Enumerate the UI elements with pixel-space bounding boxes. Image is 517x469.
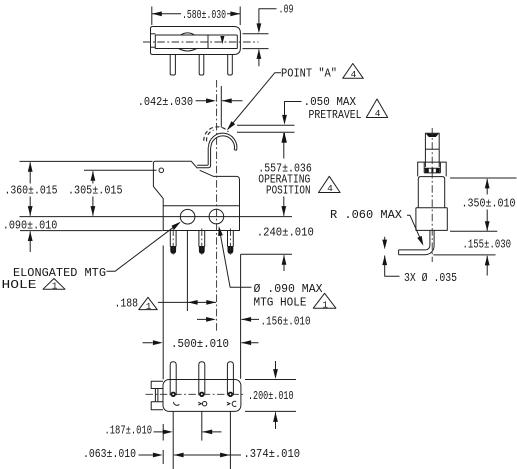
profile centerline [431, 128, 433, 262]
top view point A marker arrow [221, 36, 223, 39]
side view pivot hole [159, 168, 164, 173]
top view left notch lower [151, 46, 156, 48]
top view pin 3 [228, 55, 233, 76]
dim .050 pretravel extension lines [237, 125, 295, 132]
svg-text:.09: .09 [279, 2, 294, 16]
top view lever slot [155, 35, 237, 49]
elongated hole flag triangle 1 [43, 279, 65, 290]
svg-text:.155±.030: .155±.030 [463, 237, 512, 251]
dim .305 stem and arrows [92, 171, 94, 216]
svg-text:.063±.010: .063±.010 [83, 447, 136, 461]
bottom view terminal 2 hole [199, 392, 204, 397]
bottom view terminal 3 [227, 362, 233, 396]
side view pin 2 tip [199, 246, 205, 254]
dim .240 lower arrow [283, 255, 285, 271]
profile cap outline [418, 162, 447, 176]
top view pin 1 [170, 55, 175, 76]
side view pin 2 centerline [201, 229, 203, 257]
svg-text:.188: .188 [115, 296, 139, 310]
profile mid body [418, 177, 444, 208]
side view mounting hole 2 [209, 209, 224, 224]
svg-text:.042±.030: .042±.030 [138, 95, 193, 109]
svg-text:4: 4 [351, 69, 357, 80]
mtg hole leader [220, 230, 252, 287]
pivot extension line left [84, 169, 157, 171]
dim .360 stem and arrows [29, 162, 31, 215]
side view pin 3 outline [228, 231, 234, 247]
dim .374 line and arrows [174, 454, 241, 456]
dim .188 line and arrows [158, 301, 216, 303]
dim .200 stem and arrows [275, 361, 277, 370]
dim .580 line and arrows [152, 13, 240, 15]
dim .042 extension line [220, 86, 222, 128]
body right edge extension line [240, 254, 242, 378]
dim .09 extension lines [243, 34, 269, 49]
svg-text:PRETRAVEL: PRETRAVEL [309, 108, 362, 122]
mtg hole 1 extension line [186, 231, 188, 311]
elongated hole leader [107, 223, 180, 272]
dim .156 lines and arrows [197, 318, 259, 320]
point A leader [228, 73, 281, 130]
side view main vertical centerline [216, 80, 218, 332]
side view body seam [163, 205, 239, 207]
svg-text:1: 1 [52, 280, 58, 291]
svg-text:POINT "A": POINT "A" [281, 66, 337, 80]
operating position flag triangle 4 [319, 176, 341, 192]
side view pin 1 outline [170, 231, 176, 247]
svg-text:.240±.010: .240±.010 [257, 226, 314, 240]
dim .187 lines and arrows [154, 431, 222, 433]
profile body seam [416, 207, 447, 209]
bottom view left tab lower [151, 402, 163, 410]
dim .050 bracket and arrows [285, 102, 302, 117]
side view lever hook outer arc [209, 133, 237, 150]
top view centerline [143, 41, 259, 43]
point A flag triangle 4 [343, 64, 364, 79]
side view body outline [153, 161, 239, 230]
dim .580 extension ticks [152, 7, 240, 26]
svg-text:HOLE: HOLE [2, 278, 37, 292]
side view pin 2 outline [199, 231, 205, 247]
pin tip extension line right [241, 253, 292, 255]
pretravel flag triangle 4 [366, 99, 387, 118]
svg-text:R .060 MAX: R .060 MAX [330, 208, 402, 222]
profile seal detail [424, 168, 440, 173]
dim .557 stem and arrows [283, 133, 285, 216]
top view body outline [151, 27, 241, 55]
svg-text:.360±.015: .360±.015 [5, 184, 58, 198]
mtg hole flag triangle 1 [313, 293, 336, 308]
profile body bottom extension line [450, 230, 497, 232]
bottom view centerline [146, 393, 246, 395]
bottom view left tab upper [151, 381, 163, 388]
profile pin end cap [398, 250, 400, 255]
profile pin bent outer [399, 230, 435, 254]
side view hook end cap [234, 149, 236, 152]
body top extension line left [20, 160, 153, 162]
dim .042 lines [196, 100, 243, 102]
body left edge extension line [162, 246, 164, 465]
svg-text:3X Ø .035: 3X Ø .035 [404, 271, 457, 285]
svg-text:.350±.010: .350±.010 [462, 197, 516, 211]
top view slot divider [207, 35, 209, 49]
SECTION: side view [153, 80, 239, 332]
top view pin 2 [199, 55, 204, 76]
dim .090 lower arrow [29, 231, 31, 252]
dim .188 flag triangle 1 [139, 297, 157, 309]
svg-text:4: 4 [327, 183, 333, 194]
side view hook free position dashed arc [204, 127, 229, 141]
bottom view terminal 1 hole [171, 392, 176, 397]
svg-text:MTG HOLE: MTG HOLE [254, 295, 307, 309]
svg-text:.580±.030: .580±.030 [182, 8, 226, 22]
SECTION: right profile view [399, 128, 448, 262]
bottom view terminal 2 [199, 362, 205, 396]
profile plunger [425, 133, 439, 167]
dim .09 leader [259, 9, 277, 25]
dim .350 stem and arrows [486, 179, 488, 231]
side view pin 1 tip [170, 246, 176, 254]
SECTION: bottom view [146, 362, 246, 412]
side view pin 3 centerline [229, 229, 231, 257]
svg-text:.500±.010: .500±.010 [171, 337, 229, 351]
profile pin bottom extension line [433, 254, 495, 256]
svg-text:1: 1 [322, 299, 328, 310]
top view slot right end [236, 35, 238, 49]
dim .155 lower arrow [486, 256, 488, 276]
dim .500 lines and arrows [143, 342, 259, 344]
top view lever bump lower [179, 49, 197, 51]
profile top extension line [450, 177, 517, 179]
svg-text:.156±.010: .156±.010 [261, 314, 311, 328]
bottom view contact 2 [198, 402, 201, 405]
side view lever arm [197, 147, 210, 168]
profile plunger top shading [426, 134, 439, 137]
body bottom extension line left [20, 230, 163, 232]
side view pin 3 tip [228, 246, 234, 254]
profile pin bent inner [399, 230, 430, 250]
svg-text:.374±.010: .374±.010 [244, 447, 301, 461]
side view pin 1 centerline [172, 229, 174, 257]
bottom view slot lines [155, 389, 158, 401]
svg-text:.200±.010: .200±.010 [248, 389, 294, 403]
svg-text:.305±.015: .305±.015 [68, 184, 123, 198]
profile lower body [416, 208, 447, 231]
side view hook free position inner dashed arc [207, 130, 214, 141]
SECTION: top view [143, 27, 259, 76]
R .060 leader [407, 215, 422, 243]
bottom view contact 1 [174, 402, 180, 405]
svg-text:4: 4 [375, 108, 381, 119]
dim .200 extension lines [245, 380, 296, 412]
svg-text:Ø .090 MAX: Ø .090 MAX [254, 282, 323, 296]
svg-text:POSITION: POSITION [266, 183, 311, 197]
pin 1 extension line below [172, 411, 174, 469]
pin 3 extension line below [229, 411, 231, 469]
dim .063 line and arrow [139, 454, 153, 456]
profile plunger seam [425, 148, 439, 150]
dim .035 arrows [384, 237, 386, 241]
top view lever bump upper [181, 33, 195, 35]
bottom view contact 3 [227, 402, 230, 405]
side view mounting hole 1 [180, 209, 195, 224]
bottom view terminal 3 hole [228, 392, 233, 397]
svg-text:1: 1 [146, 301, 152, 312]
pin 2 extension line below [201, 411, 203, 440]
bottom view terminal 1 [170, 362, 176, 396]
svg-text:.090±.010: .090±.010 [3, 218, 58, 232]
top view left notch upper [151, 33, 156, 35]
svg-text:.187±.010: .187±.010 [105, 424, 153, 438]
bottom view body outline [163, 380, 241, 412]
profile cap inner walls [424, 162, 440, 173]
side view lever hook inner arc [211, 136, 235, 150]
hole centerline extension long [20, 216, 293, 218]
